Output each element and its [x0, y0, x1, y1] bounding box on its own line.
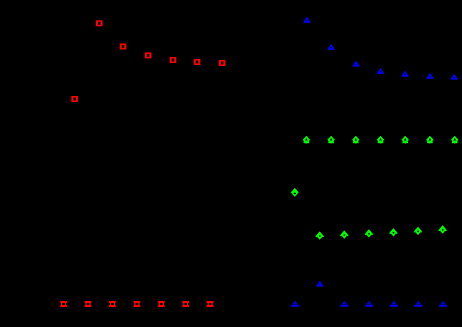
bottom-right series: blue triangles with error caps — [291, 281, 447, 307]
top-left series: red open squares — [71, 20, 225, 102]
bottom-left series: red open squares with error caps — [60, 301, 213, 307]
top-right flat series: green diamonds with caps — [303, 136, 459, 144]
top-right series: blue triangles — [303, 17, 458, 80]
bottom-right series: green diamonds — [291, 188, 447, 240]
